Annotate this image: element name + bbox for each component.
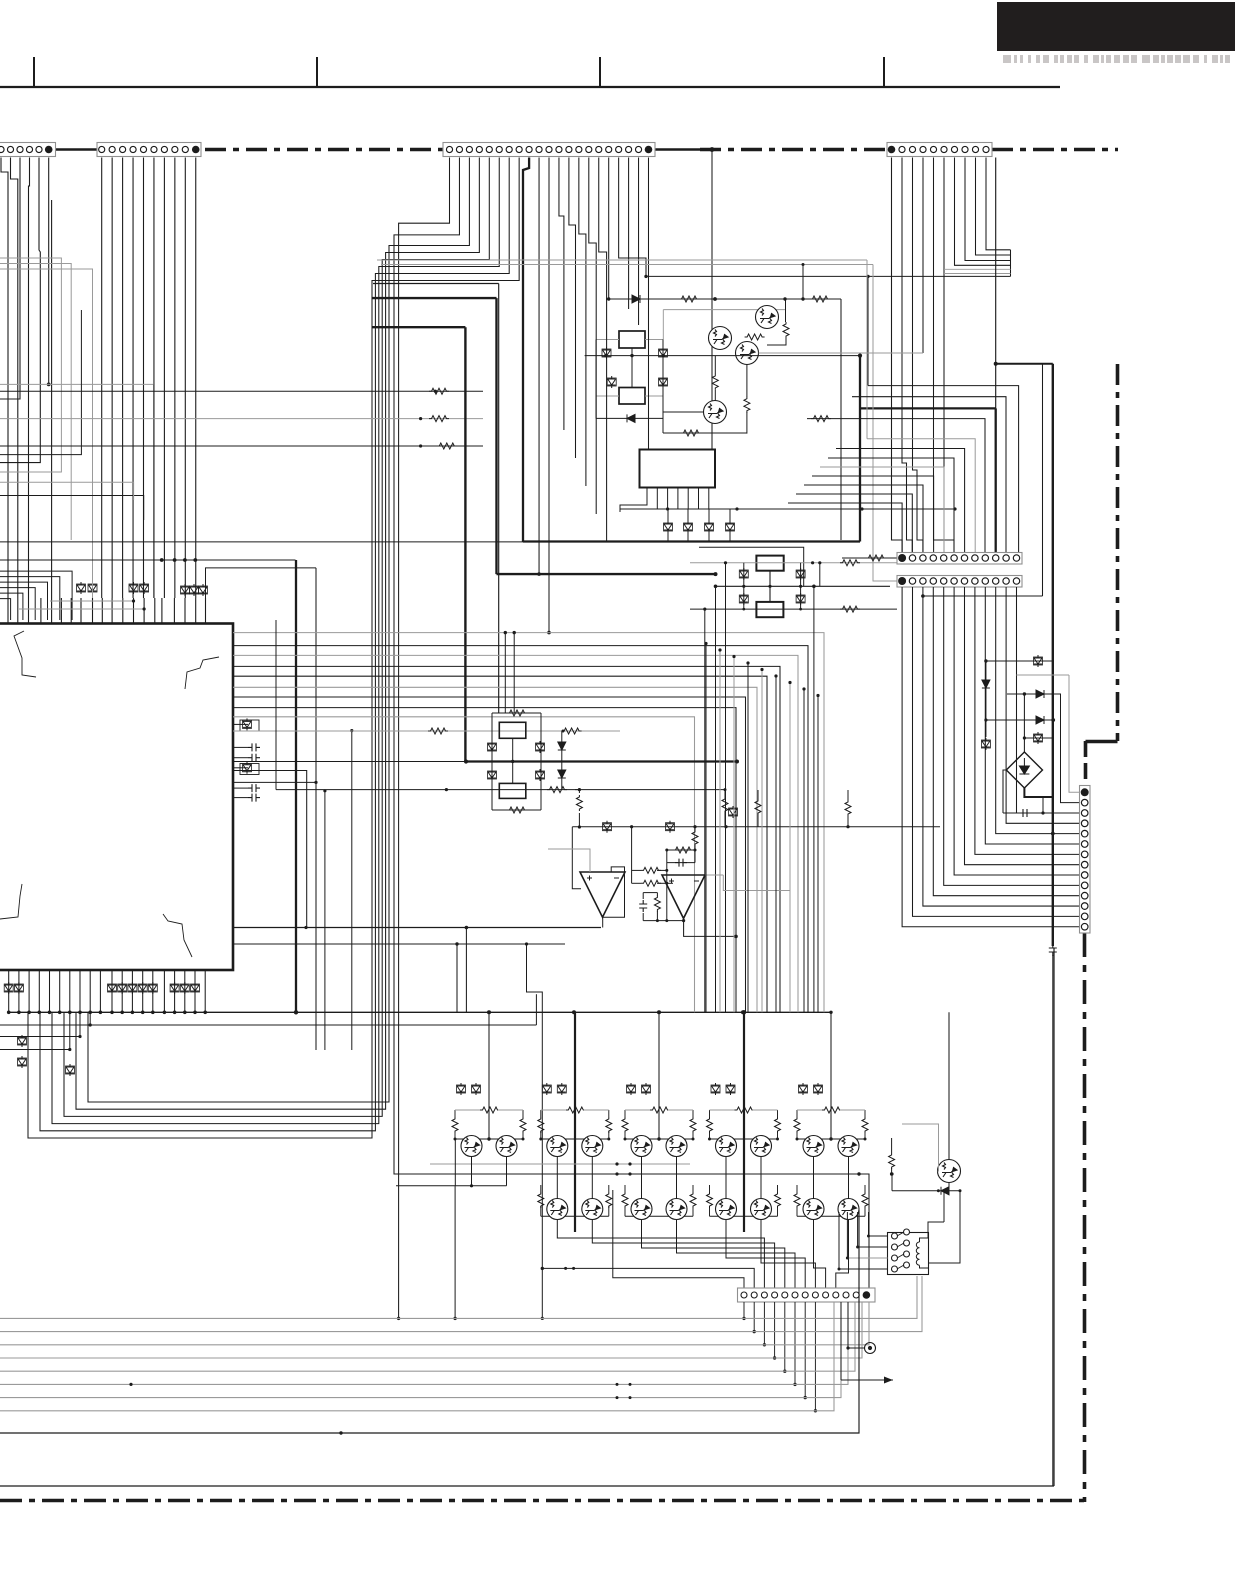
array row2 pair 4 transistors (716, 1199, 737, 1220)
U2 pin nets down (620, 498, 647, 513)
res/cap parallel pair right (667, 849, 695, 851)
K3 vertical x=813.9 down (813, 586, 815, 1012)
array pair 2 top resistor (566, 1107, 586, 1113)
resistor above op-amp rail x=848 (845, 800, 851, 816)
row2 emitter drops to CN7 (557, 1220, 764, 1289)
K3 bottom net (690, 608, 897, 610)
thick net y=574 to the right (497, 573, 716, 575)
gray long net y=260 (377, 259, 867, 261)
net y=661 with zener (986, 660, 1053, 662)
net y=927.5 across (233, 927, 601, 929)
collector stub vertical x=1010.5 (1010, 250, 1012, 277)
vertical x=455 down to bottom bus (454, 1186, 456, 1319)
thin continuation of B+ rail to inner border (1052, 955, 1054, 1486)
resistor net row y=391 (0, 390, 483, 392)
junction dots on left exits (68, 1048, 71, 1051)
array row2 pair 5 base rail (797, 1215, 865, 1217)
gray vertical x=873 to CN5B pin1 (873, 265, 898, 582)
net through relay K2 (dark, thick right part) (233, 761, 466, 763)
connector CN6 (right edge column) (1080, 786, 1091, 934)
thick bus wire x=296 (295, 560, 297, 1012)
gray long net y=264.5 (381, 264, 873, 266)
Q4 collector resistor (712, 374, 718, 390)
transistor Q2 (756, 306, 779, 329)
top rail corner down right (840, 299, 842, 540)
junction dots on gray bus 632 (504, 631, 507, 634)
left edge hook wires above U1 (0, 599, 11, 620)
CN4 pin10 wire to bus stub (986, 158, 1011, 250)
resistor above op-amp rail x=725 (722, 797, 728, 813)
K3 top gray net (690, 562, 897, 564)
array pair 4 zeners (711, 1083, 720, 1095)
vertical from y=384 to U1 (153, 384, 155, 598)
array row2 pair 2 flank resistors (540, 1185, 542, 1192)
zener diodes right of K2 (558, 742, 566, 750)
inner board outline bottom (0, 1485, 1054, 1487)
K3 side rails and zeners (743, 563, 745, 609)
CN4 pin6 wire down (944, 158, 954, 553)
res/cap under mid of op-amps (639, 900, 647, 912)
bridge bottom to B+ rail (1024, 788, 1053, 797)
resistor from rail to pair (692, 830, 698, 846)
array pair 3 centre feed (658, 1012, 660, 1139)
thick lower part of x=995.7 into CN5A pin10 (995, 408, 997, 552)
net y=720 with diode (986, 719, 1053, 721)
U1 bottom pin stubs to bus (9, 970, 206, 1012)
junction dots on 1174 net (615, 1172, 618, 1175)
zener on x=986 low (981, 738, 990, 750)
thick vertical x=496.5 (495, 298, 497, 574)
page border dash-dot right lower (above CN6) (1084, 741, 1088, 786)
gray link under top rail (663, 309, 785, 311)
pcb target symbol (865, 1343, 876, 1354)
feedback resistors between op-amps (641, 867, 661, 873)
bus CN2 to U1 (vertical wires) (102, 158, 196, 599)
zone tick 2 (316, 57, 318, 87)
page border jog (1086, 740, 1118, 744)
resistor under Q4 (663, 432, 747, 434)
thick wire x=1053 (B+ rail) (1052, 364, 1054, 946)
resistor net row y=418 (0, 418, 483, 420)
feedback loop around U3A output (603, 867, 625, 917)
bottom loop line (643, 920, 683, 922)
U2 bottom pins (647, 488, 709, 498)
transistor Q3 (736, 342, 759, 365)
U3A input gray from left (548, 849, 590, 872)
net y=276.4 to the right (646, 275, 1011, 277)
capacitor on B+ rail (1049, 944, 1057, 956)
relay K2 surrounding zeners (488, 741, 497, 753)
bus CN3 pin2 wire (long loop to CN7) (394, 158, 869, 1289)
signal arrow bottom (841, 1379, 893, 1381)
left net horizontal y=384 (0, 383, 154, 385)
branch down from 944 net (456, 944, 458, 1012)
left edge exits below bus (0, 1024, 536, 1026)
K3 feed verticals down to array (704, 609, 706, 1012)
CN4 pin3 wire with jog (913, 158, 923, 553)
relay K2 feed verticals from gray bus (504, 633, 506, 713)
gray net y=601 (50, 600, 134, 602)
op-amp U3B (662, 875, 705, 918)
hybrid IC U2 body (640, 450, 716, 488)
diode D1 on top rail (632, 295, 640, 303)
border junction wire at x=712 into U2 (710, 147, 715, 152)
transistor Q1 (709, 327, 732, 350)
thick branch to CN5A pin10 (860, 407, 996, 409)
microprocessor U1 body (0, 624, 233, 971)
relay feeds from left (869, 1235, 888, 1237)
vertical feeds from CN3 into regulator (559, 158, 564, 431)
array row2 pair 5 transistors (803, 1199, 824, 1220)
U3B gray input right (705, 874, 723, 876)
CN4 pin8 wire to bus stub (965, 158, 1011, 261)
thick vertical x=860 (859, 356, 861, 542)
vertical to bridge (1023, 694, 1025, 752)
relay K2 coil boxes (499, 722, 526, 738)
U1 corner mark bottom-right (163, 914, 192, 957)
vertical x=498.7 down to relay K2 (498, 284, 500, 714)
resistor net row y=446 (0, 445, 483, 447)
connector CN5A (897, 553, 1022, 565)
inner board outline right (1053, 948, 1055, 1486)
net y=944 across (233, 943, 565, 945)
gray feed lines upper left (0, 258, 61, 472)
branch down from 927.5 net (465, 928, 467, 1013)
gray net y=353 from Q3 to CN4 pin4 (759, 352, 924, 354)
bottom black net y=1433 (0, 1210, 859, 1433)
thick net y=298 to x=496.5 (372, 297, 497, 299)
bridge left loop (1003, 770, 1006, 813)
relay coil return up (943, 1191, 945, 1222)
page border dash-dot top, right of CN4 (992, 148, 1118, 152)
bypass zeners below U1 (4, 982, 13, 994)
array cross line y=1185.8 (396, 1185, 507, 1187)
page border dash-dot bottom (0, 1499, 1084, 1503)
CN3 pin18 wire to net 275 (619, 158, 646, 277)
relay K3 coil boxes (756, 556, 783, 571)
left net horizontal y=541.9 (0, 541, 523, 543)
array row2 pair 5 flank resistors (796, 1185, 798, 1192)
CN3 pin11 wire to gray bus (548, 158, 550, 633)
connector CN7 (bottom strip) (738, 1288, 876, 1302)
wire x=306.7 from U1 caps down to 927 net (233, 771, 307, 928)
array pair1 flank continues down (454, 1139, 456, 1186)
thick separator verticals in array (574, 1012, 576, 1232)
gray vertical x=867 (866, 260, 868, 439)
zeners on left exits (18, 1035, 27, 1047)
feed with resistor into CN5A pin1 (842, 557, 897, 559)
mid vertical from rail x=631.6 (631, 827, 633, 884)
CN7 pin wires down to bottom bus (742, 1302, 817, 1413)
array pair 3 flank resistors (624, 1110, 626, 1117)
array pair 2 row1 transistors (547, 1136, 568, 1157)
CN4 pin5 wire down (934, 158, 945, 553)
gray jog from x=1016 to x=1069 (1016, 674, 1069, 676)
bottom bus line 1 (to relay coil riser) (0, 1276, 917, 1318)
page border dash-dot top, CN2 to CN3 (205, 148, 443, 152)
bus CN3 pins3-8 loop wires via bottom-left (28, 158, 519, 1139)
relay K2 bottom resistor (492, 809, 541, 811)
CN5B pin3 jog net to right (923, 595, 1043, 597)
bottom bus lines 3-8 (0, 1302, 869, 1411)
array pair 1 row1 transistors (461, 1136, 482, 1157)
array pair 4 top resistor (735, 1107, 755, 1113)
resistor chain to op-amp rail (575, 790, 579, 793)
CN6 pin1 stub via gray jog (1069, 675, 1080, 792)
net to relay K2 lower (276, 789, 725, 791)
bus CN3 pin1 wire (down to bottom bus) (399, 158, 450, 1319)
top zone ruler line (0, 86, 1060, 88)
zener beside x=731 (729, 806, 738, 818)
zener at op-amp rail 1 (603, 821, 612, 833)
zone tick 3 (599, 57, 601, 87)
relay K1 coil boxes (619, 331, 645, 348)
array row2 pair 2 transistors (547, 1199, 568, 1220)
net row under U2 (620, 508, 955, 510)
Q4 base link (663, 411, 704, 413)
thin vertical x=1042.5 (jog net to CN5B pin3) (1042, 364, 1044, 596)
array pair 4 flank resistors (709, 1110, 711, 1117)
Q2 emitter resistor (783, 322, 789, 338)
CN4 pin2 wire with jog (902, 158, 912, 553)
CN3 pin19 wire (628, 158, 630, 310)
left net gray y=482.3 (0, 482, 134, 500)
array row2 pair 3 flank resistors (624, 1185, 626, 1192)
array pair 5 centre feed (830, 1012, 832, 1139)
array pair 2 zeners (542, 1083, 551, 1095)
array pair 5 base rail (797, 1138, 865, 1140)
page border dash-dot right lower (below CN6) (1083, 933, 1087, 1502)
array rail y=1012 junction dots (487, 1010, 745, 1014)
CN4 pin7 wire to bus stub (955, 158, 1011, 266)
thick digital bus wire from CN3 pin9 (523, 158, 529, 542)
branch from 944 net down to CN7 area (527, 944, 543, 1318)
connector CN5B (897, 576, 1022, 588)
resistor above op-amp rail x=758 (755, 799, 761, 815)
array pair 1 zeners (457, 1083, 466, 1095)
vertical x=995.7 from CN4 region (995, 158, 997, 409)
coil wire right (929, 1191, 960, 1263)
net to relay K2 (gray) (233, 730, 620, 732)
zener at op-amp rail 2 (666, 821, 675, 833)
array pair 5 zeners (799, 1083, 808, 1095)
relay RL1 coil (916, 1242, 919, 1265)
net from U1 to x=316 (233, 781, 316, 783)
bypass zeners above U1 top pins (77, 582, 86, 594)
diode down on x=986 (982, 680, 990, 688)
net y=283 thin (373, 283, 499, 285)
array row2 pair 3 base rail (625, 1215, 693, 1217)
left net horizontal y=560 into thick bus (0, 559, 296, 561)
array row1-row2 links pair 4 (725, 1157, 727, 1199)
array row2 pair 4 base rail (710, 1215, 778, 1217)
zone tick 4 (883, 57, 885, 87)
array pair 1 base rail (455, 1138, 523, 1140)
junction dot on B+ at pin10 feed (1051, 832, 1055, 836)
U1 corner mark bottom-left (0, 884, 22, 919)
U1 right side decoupling caps (233, 723, 248, 725)
CN5B wires descending to CN6 (902, 587, 1080, 927)
vertical x=666.8 (666, 850, 668, 921)
wire from U1 pin to x=316 net (206, 568, 317, 598)
array pair 4 base rail (710, 1138, 778, 1140)
feedback loop wire left of U3A (572, 827, 581, 889)
K1 left feeds (596, 339, 619, 341)
op-amp feed rail y=826.7 (572, 826, 940, 828)
gray stubs near CN4 (944, 268, 1011, 270)
page border dash-dot top, CN3 to CN4 (700, 148, 887, 152)
ground bus under U1 (9, 1011, 832, 1013)
array pair 3 top resistor (650, 1107, 670, 1113)
right-center vertical bundle (704, 642, 819, 1012)
smoothing capacitor (1003, 812, 1043, 814)
driver transistor Q30 (938, 1160, 961, 1183)
bus CN1 to U1 (vertical wires) (1, 158, 8, 599)
smudged subtitle text under title block (1003, 55, 1230, 63)
K1 zeners (602, 347, 611, 359)
diode D2 low (596, 417, 664, 419)
array row1-row2 links pair 5 (813, 1157, 815, 1199)
array pair 3 base rail (625, 1138, 693, 1140)
array pair 5 row1 transistors (803, 1136, 824, 1157)
array pair 1 centre feed (488, 1012, 490, 1139)
array pair 1 top resistor (480, 1107, 500, 1113)
array cross line gray y=1164 (430, 1163, 690, 1165)
array pair 1 flank resistors (454, 1110, 456, 1117)
Q4 emitter resistor (744, 397, 750, 413)
array row1-row2 links pair 2 (556, 1157, 558, 1199)
Q30 emitter stub (948, 1183, 950, 1191)
page border dash-dot right upper (1116, 364, 1120, 741)
CN4 pin1 wire down to CN5A (892, 158, 903, 553)
CN4 pin9 wire to bus stub (976, 158, 1011, 256)
array row1 pair1 emitters (471, 1157, 473, 1186)
vertical x=324.9 from 790 net (324, 791, 326, 1050)
CN4 pin4 wire to Q3 gray net (922, 158, 924, 354)
thick jog net y=363.8 (996, 363, 1053, 365)
array pair 5 flank resistors (796, 1110, 798, 1117)
U1 right side bus to the right (horizontal bundle) (233, 633, 824, 1013)
nested feeds from left into CN5A (868, 386, 1019, 552)
transistor Q4 (driver) (704, 401, 727, 424)
op-amp U3A (580, 872, 625, 917)
K3 vertical x=819.8 short (819, 563, 821, 587)
array pair 2 base rail (541, 1138, 609, 1140)
relay RL1 contact block (888, 1233, 929, 1275)
U3A output joins 927.5 net (602, 917, 604, 927)
vertical x=868 branch (867, 276, 869, 385)
array row1-row2 links pair 3 (641, 1157, 643, 1199)
thick vertical x=465.4 (464, 327, 466, 761)
net y=1190.8 with diode (892, 1190, 960, 1192)
vertical from gray net to top rail at x=803 (802, 265, 804, 300)
array pair 4 row1 transistors (716, 1136, 737, 1157)
junction dots on bottom bus (129, 1383, 132, 1386)
page header black title block (997, 2, 1235, 51)
K1 right feeds (645, 339, 663, 341)
relay K2 top resistor (492, 712, 541, 714)
page border solid link CN3 end (655, 148, 700, 151)
relay K2 side rails (491, 713, 493, 810)
wire from CN1 filled pin (48, 158, 50, 385)
regulator top rail (606, 298, 841, 300)
connector CN2 (97, 143, 201, 157)
net y=738 with zener (1024, 737, 1053, 739)
U1 corner mark top-left (14, 631, 36, 677)
base resistor between Q3,Q2 (745, 334, 765, 340)
vertical x=351.8 from 731 net (351, 731, 353, 1050)
regulator mid rail (585, 355, 860, 357)
array pair 2 flank resistors (540, 1110, 542, 1117)
U1 top pin stubs (8, 598, 206, 624)
connector CN3 (443, 143, 655, 157)
second rail under U2 (699, 547, 804, 586)
CN7 pin1 feed from x=612.8 (613, 1190, 744, 1292)
thick net y=327 to x=465.4 (372, 326, 465, 328)
thick rail y=541.5 (523, 540, 860, 542)
net y=694 with diode (1007, 694, 1080, 803)
U1 corner mark top-right (185, 657, 219, 689)
array row2 pair 2 base rail (541, 1215, 609, 1217)
U3B output to bundle vertical (684, 918, 736, 936)
relay RL1 switch arms (897, 1232, 904, 1269)
gray net y=609 (19, 608, 144, 610)
zone tick 1 (33, 57, 35, 87)
bottom bus line 2 (to relay coil riser) (0, 1276, 922, 1332)
vertical x=892 from 1174 net (891, 1174, 893, 1191)
CN3 pin20 wire (638, 158, 640, 326)
resistor R2 on top rail right (810, 296, 830, 302)
wire x=316 down mid-left (315, 568, 317, 1050)
page border dash-dot top, segment between CN1 and CN2 (55, 148, 97, 151)
array pair 5 top resistor (822, 1107, 842, 1113)
CN3 pin10 wire to thick net (538, 158, 540, 575)
connector CN4 (887, 143, 992, 157)
CN3 pin17 wire to top rail (608, 158, 610, 300)
left exit wire y=454.6 (0, 310, 81, 455)
connector CN1 (left, cut at page edge) (0, 143, 56, 157)
CN3 pin21 wire into U2 (648, 158, 650, 450)
CN7 pin2 feed from x=542 branch (542, 1268, 754, 1292)
array pair 3 zeners (627, 1083, 636, 1095)
left net horizontal y=495.5 (0, 496, 144, 521)
array row2 pair 4 flank resistors (709, 1185, 711, 1192)
gray link to Q30 base (902, 1124, 939, 1171)
driver vertical for lone transistor (948, 1012, 950, 1159)
array pair 3 row1 transistors (631, 1136, 652, 1157)
array row2 pair 3 transistors (631, 1199, 652, 1220)
K3 mid rail (716, 585, 891, 587)
diode bridge DB1 (1006, 752, 1042, 788)
zeners under U2 (664, 521, 673, 533)
resistor left of Q30 (889, 1153, 895, 1169)
resistor R on top rail (679, 296, 699, 302)
